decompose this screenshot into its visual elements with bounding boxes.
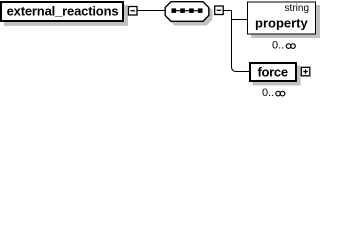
svg-text:0..: 0.. bbox=[272, 40, 284, 52]
svg-text:force: force bbox=[258, 65, 288, 80]
svg-text:string: string bbox=[285, 3, 309, 14]
svg-text:property: property bbox=[255, 16, 309, 31]
svg-text:0..: 0.. bbox=[262, 87, 274, 99]
svg-text:external_reactions: external_reactions bbox=[7, 4, 119, 19]
